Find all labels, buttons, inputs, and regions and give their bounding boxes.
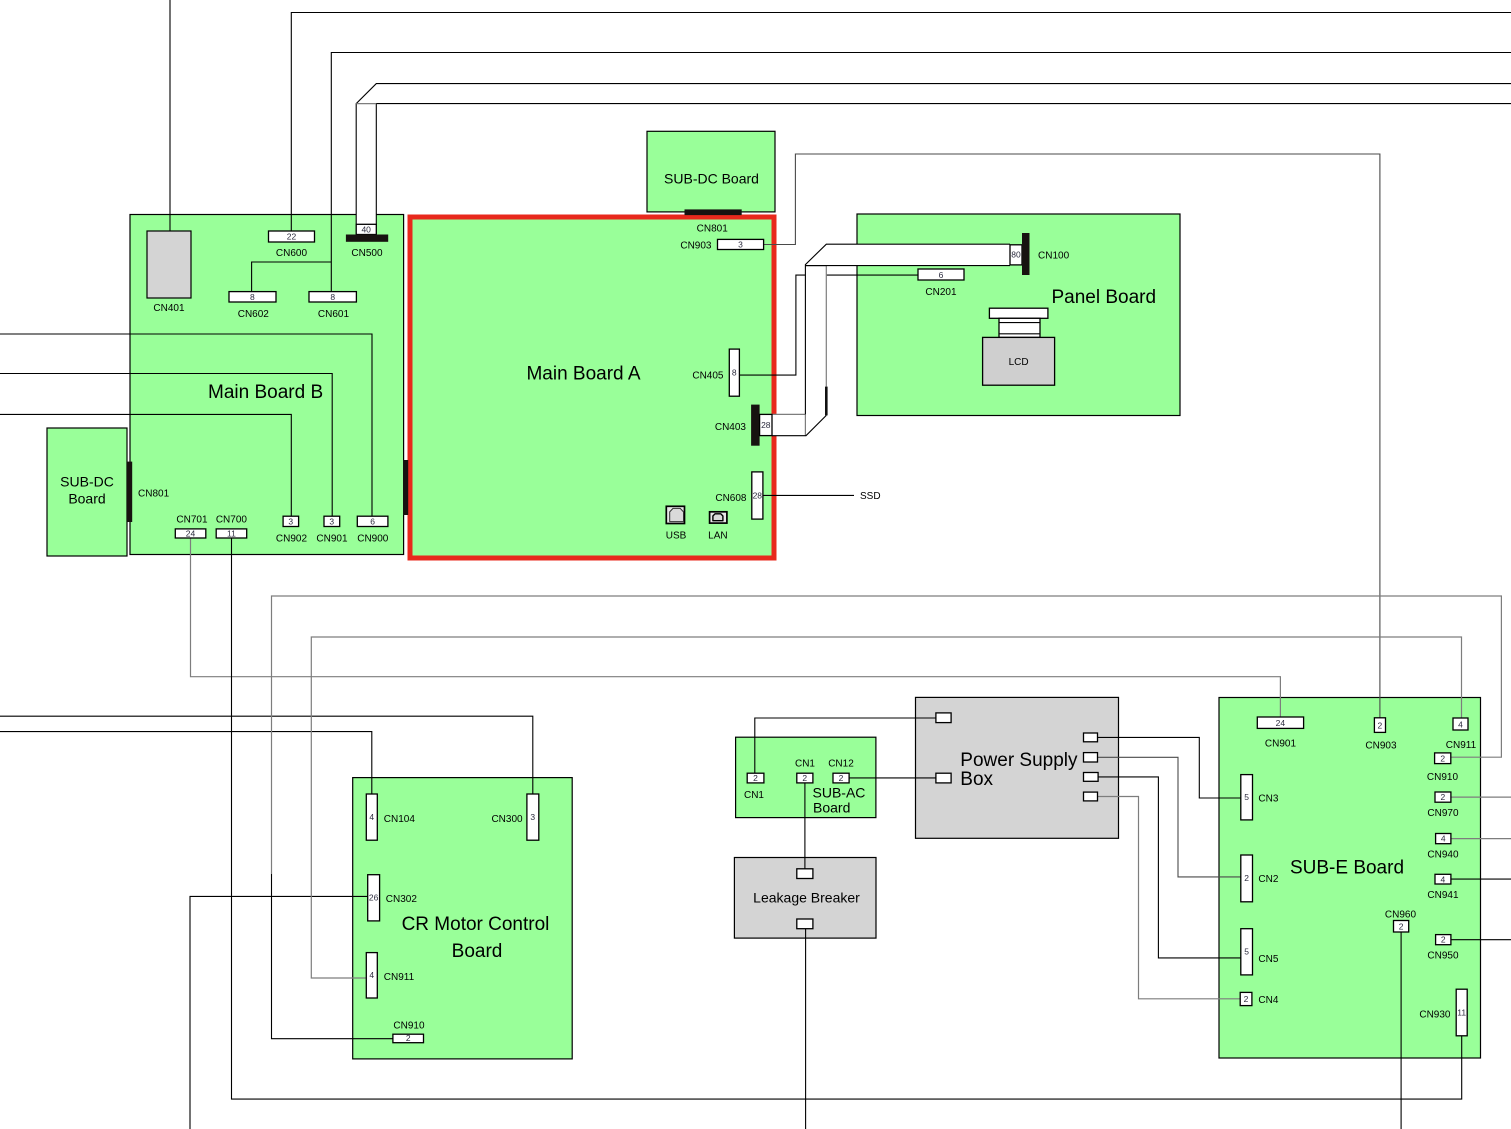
svg-text:CN911: CN911 (384, 972, 415, 983)
ribbon cable CN403 to CN100 (772, 244, 1010, 436)
connector Leakage Breaker bottom (797, 919, 813, 929)
svg-text:LAN: LAN (708, 531, 727, 542)
svg-text:CN1: CN1 (795, 759, 815, 770)
svg-text:CN910: CN910 (1427, 772, 1459, 783)
svg-text:28: 28 (761, 420, 771, 430)
connector PSB right 3 (1084, 773, 1099, 782)
connector CN405 (692, 349, 739, 396)
connector CN903 SUB-E (1365, 718, 1397, 752)
connector CN970 (1427, 792, 1459, 819)
svg-text:CN910: CN910 (393, 1021, 425, 1032)
svg-text:SUB-DC Board: SUB-DC Board (664, 171, 759, 187)
svg-text:CN600: CN600 (276, 248, 308, 259)
svg-text:3: 3 (738, 240, 743, 250)
connector PSB right 4 (1084, 792, 1098, 801)
connector CN903 MainA (680, 239, 763, 251)
connector CN910 CR (393, 1021, 425, 1044)
svg-text:2: 2 (1399, 922, 1404, 932)
svg-text:CN201: CN201 (925, 287, 957, 298)
svg-text:Main Board B: Main Board B (208, 382, 323, 403)
svg-text:11: 11 (227, 528, 236, 538)
connector CN911 SUB-E (1446, 718, 1477, 751)
svg-text:3: 3 (329, 517, 334, 527)
connector PSB left-mid (936, 773, 951, 783)
connector CN901 SUB-E (1257, 717, 1303, 750)
svg-text:4: 4 (1458, 719, 1463, 729)
svg-text:CN300: CN300 (491, 814, 523, 825)
svg-text:CN902: CN902 (276, 534, 308, 545)
connector CN960 (1385, 910, 1417, 933)
svg-text:2: 2 (1378, 720, 1383, 730)
connector CN700 (216, 515, 248, 539)
svg-text:Board: Board (452, 941, 503, 962)
board Panel Board (857, 214, 1180, 416)
svg-text:CN601: CN601 (318, 309, 350, 320)
svg-text:8: 8 (330, 292, 335, 302)
connector CN401 (147, 231, 191, 314)
board CR Motor Control Board (353, 778, 573, 1059)
svg-text:2: 2 (1441, 792, 1446, 802)
board SUB-AC Board (736, 737, 876, 817)
svg-text:CN901: CN901 (1265, 739, 1297, 750)
connector CN901 MainB (316, 516, 348, 544)
board SUB-DC Board (top) (647, 131, 775, 212)
wire SUB-E CN960 to bottom edge (1400, 932, 1402, 1129)
svg-text:CN500: CN500 (351, 248, 383, 259)
svg-text:26: 26 (369, 893, 379, 903)
connector CN403 (715, 405, 772, 446)
svg-text:CN960: CN960 (1385, 910, 1417, 921)
connector CN801 MainA black bar (685, 209, 742, 234)
connector USB port icon (666, 506, 687, 541)
svg-text:24: 24 (186, 528, 196, 538)
wire SUB-E CN940 to right edge (1451, 838, 1511, 840)
wire PSB to SUB-E CN2 (1098, 757, 1241, 877)
wire SUB-E CN950 to right edge (1451, 939, 1511, 941)
svg-text:80: 80 (1011, 250, 1021, 260)
svg-text:USB: USB (666, 531, 687, 542)
svg-text:CN900: CN900 (357, 534, 389, 545)
svg-text:LCD: LCD (1009, 357, 1029, 368)
connector LAN port icon (708, 512, 727, 542)
wire CN300 from left edge (0, 716, 533, 794)
svg-text:CN901: CN901 (316, 534, 348, 545)
connector CN902 (276, 516, 308, 544)
svg-text:CR Motor Control: CR Motor Control (402, 914, 550, 935)
board SUB-DC Board (left) (47, 428, 127, 556)
svg-text:CN12: CN12 (828, 759, 854, 770)
svg-text:5: 5 (1244, 792, 1249, 802)
wire CN12 to Power Supply Box (849, 777, 936, 779)
svg-text:CN903: CN903 (680, 241, 712, 252)
wire CN700 to SUB-E CN930 (232, 538, 1462, 1099)
connector CN500 (346, 224, 388, 259)
connector CN801 MainB black bar (127, 462, 170, 522)
wire CN903 MainA to SUB-E CN903 (764, 154, 1380, 718)
wire CN600 to top right (291, 13, 1511, 232)
svg-text:40: 40 (361, 224, 371, 234)
connector CN302 (368, 875, 418, 921)
svg-text:CN970: CN970 (1427, 808, 1459, 819)
connector CN5 (1241, 929, 1279, 975)
connector CN930 (1419, 989, 1467, 1036)
svg-text:2: 2 (1440, 753, 1445, 763)
connector CN3 (1241, 775, 1279, 820)
svg-text:2: 2 (1244, 994, 1249, 1004)
connector CN941 (1427, 874, 1459, 901)
svg-text:Leakage Breaker: Leakage Breaker (753, 890, 860, 906)
connector PSB right 1 (1084, 733, 1098, 742)
board Main Board B (130, 215, 404, 555)
connector PSB right 2 (1084, 753, 1098, 762)
connector CN600 (269, 231, 315, 259)
svg-text:SUB-E Board: SUB-E Board (1290, 858, 1404, 879)
svg-text:CN405: CN405 (692, 371, 724, 382)
wire CN701 to SUB-E CN901 (191, 538, 1281, 717)
wire CR CN911 to SUB-E CN911 (311, 637, 1461, 978)
connector CN608 (715, 472, 763, 519)
svg-text:CN801: CN801 (697, 224, 729, 235)
connector CN900 (357, 516, 389, 544)
svg-text:2: 2 (406, 1033, 411, 1043)
svg-text:4: 4 (1441, 834, 1446, 844)
wire PSB to SUB-E CN4 (1098, 797, 1241, 999)
svg-text:CN801: CN801 (138, 489, 170, 500)
svg-text:Box: Box (960, 769, 993, 790)
svg-text:3: 3 (530, 812, 535, 822)
wire SUB-AC CN1 to Leakage Breaker (804, 783, 806, 869)
svg-text:CN4: CN4 (1258, 995, 1278, 1006)
svg-text:3: 3 (288, 517, 293, 527)
svg-text:Panel Board: Panel Board (1052, 287, 1157, 308)
wire PSB to SUB-E CN5 (1098, 777, 1241, 958)
connector CN910 SUB-E (1427, 753, 1459, 783)
svg-text:CN700: CN700 (216, 515, 248, 526)
svg-text:Board: Board (68, 491, 105, 507)
svg-text:4: 4 (369, 970, 374, 980)
svg-text:CN701: CN701 (176, 515, 208, 526)
svg-text:6: 6 (939, 270, 944, 280)
svg-text:CN950: CN950 (1427, 951, 1459, 962)
svg-text:24: 24 (1276, 718, 1286, 728)
svg-text:2: 2 (839, 773, 844, 783)
connector CN2 (1241, 855, 1279, 902)
svg-text:Power Supply: Power Supply (960, 750, 1078, 771)
svg-text:CN302: CN302 (386, 894, 418, 905)
svg-text:4: 4 (369, 812, 374, 822)
svg-text:28: 28 (753, 490, 763, 500)
svg-text:CN403: CN403 (715, 422, 747, 433)
svg-text:CN941: CN941 (1427, 890, 1459, 901)
connector CN602 (229, 292, 276, 320)
svg-text:CN940: CN940 (1427, 850, 1459, 861)
svg-text:8: 8 (732, 368, 737, 378)
svg-text:2: 2 (1441, 935, 1446, 945)
svg-text:2: 2 (1244, 873, 1249, 883)
svg-text:CN2: CN2 (1258, 874, 1278, 885)
LCD assembly (983, 308, 1055, 385)
connector CN100 (1010, 233, 1070, 275)
wire CN608 to SSD (763, 494, 854, 496)
board SUB-E Board (1219, 698, 1481, 1059)
svg-text:11: 11 (1457, 1007, 1466, 1017)
ribbon cable CN500 to right edge (356, 84, 1511, 225)
connector CN601 (309, 292, 356, 320)
wire PSB to SUB-E CN3 (1098, 737, 1241, 798)
svg-text:CN911: CN911 (1446, 740, 1477, 751)
board Main Board A (410, 217, 774, 558)
connector Leakage Breaker top (797, 869, 813, 879)
svg-text:5: 5 (1244, 947, 1249, 957)
svg-text:CN3: CN3 (1258, 794, 1278, 805)
connector CN104 (366, 794, 415, 840)
wire SUB-E CN970 to right edge (1451, 796, 1511, 798)
box Power Supply Box (916, 697, 1119, 838)
connector MainB right edge bar (403, 460, 408, 515)
wire CN104 from left edge (0, 732, 372, 794)
svg-text:SUB-AC: SUB-AC (813, 785, 866, 801)
svg-text:2: 2 (802, 773, 807, 783)
connector CN12 SUB-AC (828, 759, 854, 783)
connector CN950 (1427, 935, 1459, 962)
svg-text:CN930: CN930 (1419, 1010, 1451, 1021)
svg-text:CN903: CN903 (1365, 741, 1397, 752)
wire CN601/CN602 net to top right (252, 53, 1511, 292)
wire SUB-E CN941 to right edge (1451, 878, 1511, 880)
svg-text:CN401: CN401 (153, 303, 185, 314)
svg-text:CN602: CN602 (238, 309, 270, 320)
svg-text:2: 2 (753, 773, 758, 783)
svg-text:Main Board A: Main Board A (526, 364, 640, 385)
svg-text:CN104: CN104 (384, 814, 416, 825)
svg-text:CN608: CN608 (715, 493, 747, 504)
connector CN911 CR (366, 953, 414, 998)
svg-text:4: 4 (1441, 874, 1446, 884)
wire CN902 from left edge (0, 414, 291, 516)
svg-text:Board: Board (813, 800, 850, 816)
connector PSB top-left (936, 713, 951, 723)
svg-text:CN100: CN100 (1038, 251, 1070, 262)
svg-text:SSD: SSD (860, 491, 881, 502)
wire CN405 to CN201 (739, 275, 918, 375)
connector CN940 (1427, 834, 1459, 861)
wire CN302 from bottom edge (190, 896, 368, 1129)
wire CN901 MainB from left edge (0, 374, 332, 517)
connector CN201 (918, 269, 964, 298)
svg-text:6: 6 (370, 517, 375, 527)
box Leakage Breaker (734, 858, 876, 939)
svg-text:22: 22 (287, 232, 297, 242)
wire CN401 drop (169, 0, 171, 231)
connector CN701 (175, 515, 208, 539)
connector CN300 (491, 794, 538, 840)
svg-text:SUB-DC: SUB-DC (60, 474, 114, 490)
wire CR CN910 to SUB-E CN910 (272, 874, 393, 1039)
svg-text:CN1: CN1 (744, 790, 764, 801)
connector CN1 SUB-AC left (744, 773, 764, 801)
svg-text:CN5: CN5 (1258, 954, 1278, 965)
wire Leakage Breaker to bottom edge (805, 929, 807, 1129)
connector CN4 (1240, 992, 1279, 1006)
svg-text:8: 8 (250, 292, 255, 302)
wire CN900 from left edge (0, 334, 372, 516)
connector CN1 SUB-AC middle (795, 759, 815, 783)
wire SUB-AC CN1 to Power Supply Box (755, 718, 936, 773)
